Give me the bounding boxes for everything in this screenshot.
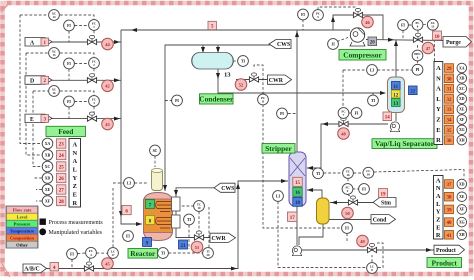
instrument XE product analyzer (457, 192, 467, 202)
instrument FC D feed (89, 58, 100, 69)
instrument XB purge analyzer (457, 74, 467, 84)
svg-text:Temperature: Temperature (10, 229, 34, 234)
wire dashed JI stub (337, 38, 348, 42)
label Condenser (199, 94, 234, 104)
instrument TI CWR outlet (203, 248, 214, 259)
instrument FI E feed (64, 96, 75, 107)
svg-text:E: E (73, 192, 77, 199)
tag 40 product analyzer (445, 218, 454, 227)
wire dashed condenser PC to CW valve (254, 65, 263, 95)
svg-text:FI: FI (67, 24, 71, 28)
label Feed (46, 126, 86, 136)
wire reactor CWR line (176, 228, 210, 238)
svg-text:FI: FI (301, 13, 305, 17)
instrument FI steam (359, 184, 370, 195)
svg-text:XB: XB (45, 153, 51, 157)
svg-text:A: A (436, 177, 441, 184)
tag 21 reactor CW outlet temp (179, 240, 188, 249)
wire dashed reactor level cascade LI to LC (113, 183, 147, 248)
svg-text:R: R (72, 200, 77, 207)
svg-text:Other: Other (16, 243, 28, 248)
svg-text:39: 39 (447, 208, 453, 213)
instrument XH product analyzer (457, 230, 467, 240)
instrument XD product analyzer (457, 179, 467, 189)
svg-text:41: 41 (447, 234, 453, 239)
svg-text:Manipulated variables: Manipulated variables (49, 230, 103, 236)
wire condensate line (329, 219, 372, 221)
wire dashed stripper TI TC CC row (324, 170, 465, 179)
MV circle 47 purge valve (422, 42, 434, 54)
instrument XF product analyzer (457, 205, 467, 215)
svg-text:XD: XD (45, 176, 51, 180)
wire dashed A feed composition loop (20, 15, 94, 20)
tag 2 D feed (41, 76, 49, 84)
tag 1 A feed (41, 38, 49, 46)
wire dashed analyzer to XC vertical x20 (20, 15, 42, 144)
tag 13 separator pressure (392, 99, 401, 107)
tag 35 purge analyzer (445, 126, 454, 135)
tag 24 feed analyzer (57, 150, 66, 159)
svg-text:42: 42 (105, 84, 109, 89)
wire separator bottom to pump (395, 112, 397, 121)
svg-text:24: 24 (59, 154, 65, 159)
wire steam line to heater (330, 201, 374, 205)
MV circle 52 condenser CW valve (235, 79, 247, 91)
wire dashed condenser TI stub (233, 60, 238, 62)
wire stripper bottoms to pump (296, 206, 298, 245)
svg-text:XH: XH (459, 138, 465, 142)
MV circle 45 A/B/C valve (102, 258, 114, 270)
wire reactor CWS line (174, 188, 215, 197)
svg-text:Compressor: Compressor (343, 51, 382, 60)
feed flag D (25, 76, 52, 85)
instrument XC feed analyzer (42, 161, 53, 172)
instrument PI reactor riser (172, 95, 183, 106)
instrument PI separator (412, 64, 423, 75)
svg-text:27: 27 (59, 189, 65, 194)
tag 6 reactor feed (122, 206, 131, 215)
wire product line stream 11 (302, 248, 434, 252)
tag 37 product analyzer (445, 180, 454, 189)
svg-text:D: D (30, 79, 34, 85)
wire dashed FI to product valve (346, 234, 348, 244)
valve compressor bypass (353, 8, 362, 17)
svg-text:FI: FI (67, 62, 71, 66)
wire dashed stripper LI to product LC (278, 202, 383, 268)
reactor agitator (152, 169, 163, 191)
valve condenser CW (249, 73, 258, 82)
valve purge (413, 33, 422, 42)
tag 12 separator level (392, 90, 401, 98)
valve separator liquid (339, 117, 348, 126)
svg-text:Purge: Purge (446, 40, 461, 46)
instrument TI reactor bottom (158, 248, 169, 259)
svg-text:Composition: Composition (10, 236, 34, 241)
svg-text:22: 22 (410, 90, 416, 95)
tag 41 product analyzer (445, 231, 454, 240)
svg-text:Product: Product (436, 248, 456, 254)
svg-text:L: L (73, 167, 77, 174)
wire dashed FI to FC and FI drops feed A (69, 26, 94, 43)
svg-text:Reactor: Reactor (130, 249, 156, 258)
separator vessel (388, 77, 405, 113)
feed flag A (25, 38, 52, 47)
valve A/B/C feed (84, 262, 93, 271)
wire dashed FI to FC and FI drops feed E (69, 102, 94, 119)
purge analyzer box (434, 62, 443, 145)
wire stripper overhead to recycle (295, 30, 299, 152)
instrument LI stripper (273, 191, 284, 202)
label stream 13 (224, 72, 231, 79)
instrument XA feed analyzer (42, 138, 53, 149)
legend color table (6, 206, 38, 248)
tag 33 purge analyzer (445, 105, 454, 114)
wire dashed A/B/C flow loop (72, 253, 108, 268)
svg-text:FI: FI (67, 100, 71, 104)
tag 15 stripper level (293, 177, 302, 186)
stripper steam heater (317, 198, 330, 224)
instrument XG purge analyzer (457, 125, 467, 135)
MV circle 44 A feed valve (102, 38, 114, 50)
tag 25 feed analyzer (57, 162, 66, 171)
svg-text:10: 10 (435, 35, 441, 40)
svg-text:N: N (436, 185, 441, 192)
condenser vessel (191, 53, 233, 70)
instrument FI reactor feed (123, 231, 134, 242)
wire E feed line (50, 117, 121, 121)
wire dashed stripper TC cascade to steam valve (348, 179, 359, 198)
svg-text:PI: PI (175, 99, 179, 103)
svg-text:Stripper: Stripper (265, 144, 292, 153)
instrument TI separator (368, 95, 379, 106)
svg-text:A: A (72, 142, 77, 149)
tag 8 reactor level (146, 216, 155, 225)
instrument XG product analyzer (457, 217, 467, 227)
reactor coil header bottom (172, 215, 181, 228)
instrument XE purge analyzer (457, 104, 467, 114)
wire condenser inlet drop 1 (201, 45, 205, 53)
instrument FI A/B/C (67, 249, 78, 260)
svg-text:FI: FI (345, 227, 349, 231)
tag 19 steam flow (379, 189, 388, 198)
wire heater bottom to stripper base (299, 224, 323, 245)
MV circle 46 bypass valve (362, 16, 374, 28)
svg-text:10: 10 (198, 206, 202, 210)
svg-text:16: 16 (295, 191, 301, 196)
instrument PC condenser (258, 94, 269, 105)
wire dashed purge instruments row (403, 25, 427, 39)
svg-text:XC: XC (45, 165, 51, 169)
wire condenser inlet drop 2 (216, 45, 220, 53)
svg-text:13: 13 (224, 72, 231, 79)
svg-text:A/B/C: A/B/C (24, 267, 39, 273)
label Vap/Liq Separator (372, 139, 437, 149)
svg-text:11: 11 (262, 100, 265, 104)
separator pump (390, 122, 399, 132)
wire dashed separator FC FI stub (349, 112, 351, 114)
tag 3 E feed (41, 115, 49, 123)
svg-text:FI: FI (401, 24, 405, 28)
svg-text:17: 17 (290, 216, 296, 221)
instrument LC product (367, 263, 378, 274)
feed flag E (25, 114, 52, 123)
tag 14 separator underflow (383, 112, 392, 121)
wire dashed reactor bottom TI row (169, 252, 204, 254)
MV circle 42 D feed valve (102, 80, 114, 92)
svg-text:FI: FI (70, 253, 74, 257)
svg-text:LI: LI (276, 195, 281, 199)
svg-text:TI: TI (161, 252, 166, 256)
svg-text:32: 32 (447, 98, 453, 103)
svg-text:15: 15 (295, 181, 301, 186)
MV circle 49 product valve (357, 235, 369, 247)
tag 11 separator temp (392, 82, 401, 90)
svg-text:A: A (436, 65, 441, 72)
instrument FI recycle (298, 9, 309, 20)
legend process measurements (40, 219, 104, 227)
svg-text:FI: FI (362, 188, 366, 192)
svg-text:SC: SC (153, 149, 158, 153)
svg-text:52: 52 (239, 82, 243, 87)
svg-text:17: 17 (112, 253, 116, 257)
svg-text:19: 19 (381, 192, 387, 197)
instrument LC A/B/C (108, 248, 119, 259)
svg-text:28: 28 (59, 200, 65, 205)
tag 32 purge analyzer (445, 95, 454, 104)
svg-text:Vap/Liq Separator: Vap/Liq Separator (375, 139, 435, 148)
svg-text:11: 11 (393, 85, 398, 90)
instrument XH purge analyzer (457, 135, 467, 145)
svg-text:Y: Y (72, 175, 77, 182)
instrument TI condenser (238, 56, 249, 67)
svg-text:XE: XE (45, 188, 51, 192)
label Product (427, 258, 462, 268)
instrument FC A feed (89, 20, 100, 31)
svg-text:CWR: CWR (269, 78, 284, 84)
svg-text:R: R (436, 232, 441, 239)
tag 39 product analyzer (445, 205, 454, 214)
instrument LI separator (367, 65, 378, 76)
wire dashed reactor temperature control cluster (181, 206, 209, 249)
flag CWS reactor (214, 183, 235, 192)
svg-text:XE: XE (459, 108, 465, 112)
reactor coil header top (172, 197, 181, 211)
instrument PC recycle (313, 10, 324, 21)
svg-text:L: L (436, 201, 440, 208)
wire dashed D feed composition loop (26, 53, 94, 58)
wire dashed separator TI stub (372, 93, 374, 95)
svg-text:N: N (436, 75, 441, 82)
instrument CC stripper (363, 167, 374, 178)
svg-text:XF: XF (45, 199, 51, 203)
MV circle 48 separator liquid valve (338, 128, 350, 140)
svg-text:A: A (436, 193, 441, 200)
svg-text:FI: FI (126, 235, 130, 239)
svg-text:Y: Y (436, 106, 441, 113)
instrument PC purge (412, 19, 423, 30)
svg-text:XD: XD (459, 97, 465, 101)
label Reactor (128, 249, 158, 259)
wire dashed PI stripper overhead stub (288, 113, 296, 115)
compressor (350, 28, 365, 46)
svg-text:E: E (436, 224, 440, 231)
svg-text:Feed: Feed (58, 127, 74, 136)
instrument SC agitator (150, 145, 161, 156)
tag 20 compressor work (368, 37, 377, 46)
wire dashed purge PHC PI chain (417, 45, 419, 65)
svg-text:XD: XD (459, 182, 465, 186)
instrument TC stripper (343, 168, 354, 179)
svg-text:13: 13 (431, 25, 435, 29)
svg-text:LI: LI (370, 69, 375, 73)
svg-text:25: 25 (59, 166, 65, 171)
svg-text:36: 36 (447, 139, 453, 144)
svg-text:R: R (436, 137, 441, 144)
svg-text:16: 16 (53, 91, 57, 95)
svg-text:CWR: CWR (212, 236, 227, 242)
wire dashed bypass valve control (318, 7, 358, 10)
tag 29 purge analyzer (445, 64, 454, 73)
wire A/B/C feed line stream 4 to stripper (46, 179, 288, 271)
stripper column (289, 152, 306, 206)
svg-text:TI: TI (316, 172, 321, 176)
tag 4 A/B/C feed (50, 263, 59, 271)
svg-text:Z: Z (73, 183, 77, 190)
instrument XE feed analyzer (42, 184, 53, 195)
svg-text:FI: FI (355, 112, 359, 116)
tag 38 product analyzer (445, 192, 454, 201)
svg-text:37: 37 (447, 183, 453, 188)
wire dashed separator level cascade to liquid valve (342, 70, 345, 121)
tag 16 stripper pressure (293, 187, 302, 196)
svg-text:14: 14 (385, 116, 391, 121)
stripper bottoms pump (292, 246, 301, 256)
instrument FI D feed (64, 58, 75, 69)
svg-text:JI: JI (331, 43, 335, 47)
instrument XF purge analyzer (457, 115, 467, 125)
svg-text:Cond: Cond (373, 218, 387, 224)
wire dashed FI to FC and FI drops feed D (69, 64, 94, 81)
svg-text:13: 13 (393, 102, 399, 107)
svg-text:CWS: CWS (277, 42, 290, 48)
instrument XF feed analyzer (42, 196, 53, 207)
tag 23 feed analyzer (57, 139, 66, 148)
instrument FI purge (398, 20, 409, 31)
valve reactor CW (194, 231, 203, 240)
svg-text:15: 15 (53, 53, 57, 57)
instrument FC A/B/C (86, 247, 97, 258)
wire dashed purge XC to analyzer (434, 30, 435, 61)
svg-text:18: 18 (295, 201, 301, 206)
svg-text:12: 12 (393, 93, 399, 98)
svg-text:XF: XF (459, 208, 465, 212)
wire separator liquid to stripper (307, 122, 388, 170)
svg-text:XG: XG (459, 220, 465, 224)
svg-text:XG: XG (459, 128, 465, 132)
wire dashed separator LI row (343, 69, 412, 71)
svg-text:14: 14 (53, 15, 57, 19)
instrument XC purge analyzer (457, 84, 467, 94)
svg-text:CWS: CWS (221, 186, 234, 192)
tag 18 stripper temperature (293, 197, 302, 206)
instrument XD purge analyzer (457, 94, 467, 104)
wire dashed XD XE XF stubs (34, 178, 42, 201)
wire condenser CWR line (236, 79, 268, 81)
svg-text:N: N (72, 150, 77, 157)
instrument PHC separator (412, 50, 423, 61)
instrument XB feed analyzer (42, 150, 53, 161)
svg-text:Z: Z (436, 117, 440, 124)
svg-text:26: 26 (59, 177, 65, 182)
tag 26 feed analyzer (57, 173, 66, 182)
tag 36 purge analyzer (445, 136, 454, 145)
svg-text:XF: XF (459, 118, 465, 122)
instrument XC D feed (49, 48, 60, 59)
instrument TI reactor CW (184, 214, 195, 225)
svg-text:20: 20 (370, 41, 376, 46)
valve A feed (87, 35, 96, 44)
valve D feed (87, 74, 96, 83)
wire dashed PI stub at riser (165, 100, 172, 102)
label Compressor (339, 50, 386, 61)
svg-text:A: A (436, 86, 441, 93)
svg-text:Level: Level (17, 215, 28, 220)
svg-text:Flow rate: Flow rate (13, 208, 32, 213)
instrument FI product (342, 223, 353, 234)
tag 27 feed analyzer (57, 185, 66, 194)
tag 17 stripper underflow (288, 212, 297, 221)
tag 10 purge rate (433, 31, 442, 40)
svg-text:A: A (72, 158, 77, 165)
wire compressor discharge and purge line (366, 38, 443, 42)
instrument LI reactor (124, 178, 135, 189)
svg-text:51: 51 (195, 245, 199, 250)
legend manipulated variables (39, 228, 102, 236)
svg-text:29: 29 (447, 67, 453, 72)
MV circle 51 reactor CW valve (191, 241, 203, 253)
tag 31 purge analyzer (445, 84, 454, 93)
wire dashed recycle FI drop (302, 20, 304, 31)
svg-text:XE: XE (459, 195, 465, 199)
wire dashed condenser PC down to stripper FI row (263, 105, 342, 229)
svg-text:TI: TI (241, 60, 246, 64)
flag CWR condenser (268, 75, 292, 84)
svg-text:Process measurements: Process measurements (49, 220, 104, 226)
wire feed header down to reactor (119, 30, 142, 226)
svg-text:Condenser: Condenser (199, 95, 234, 104)
wire compressor bypass (331, 15, 383, 40)
instrument FI separator liquid (351, 108, 362, 119)
instrument TI stripper (313, 168, 324, 179)
svg-text:21: 21 (181, 244, 187, 249)
wire separator vapor riser (394, 40, 398, 78)
instrument XD feed analyzer (42, 173, 53, 184)
svg-text:20: 20 (207, 253, 211, 257)
svg-text:XA: XA (459, 66, 465, 70)
feed flag A/B/C (23, 264, 47, 273)
svg-text:PI: PI (416, 68, 420, 72)
svg-text:Y: Y (436, 209, 441, 216)
valve steam (348, 196, 357, 205)
svg-text:Stm: Stm (381, 201, 391, 207)
svg-text:XB: XB (459, 77, 465, 81)
instrument TC reactor (194, 201, 205, 212)
tag 5 recycle (208, 21, 216, 29)
svg-text:33: 33 (447, 108, 453, 113)
svg-text:PI: PI (280, 112, 284, 116)
instrument XC A feed (49, 10, 60, 21)
flag Stm (373, 198, 396, 207)
